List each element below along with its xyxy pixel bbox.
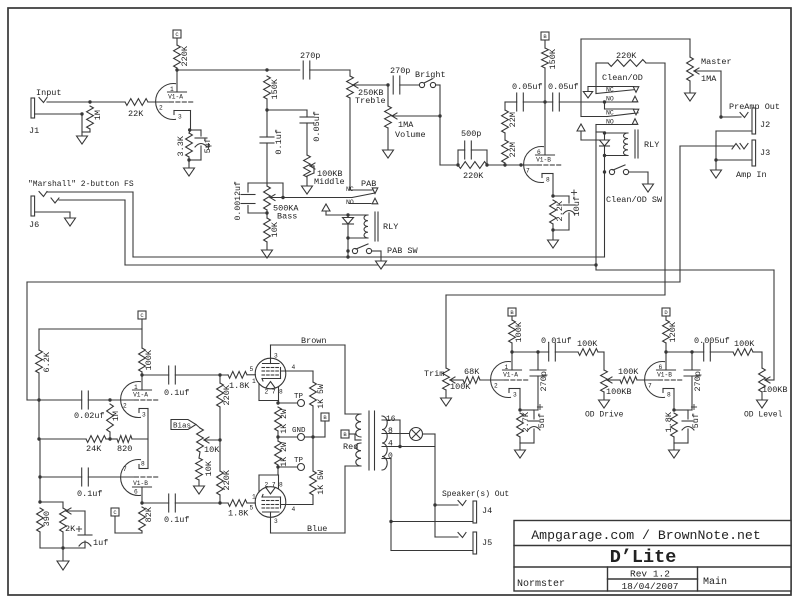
- svg-text:J4: J4: [482, 506, 492, 516]
- svg-text:"Marshall" 2-button FS: "Marshall" 2-button FS: [28, 180, 134, 189]
- svg-text:5uf: 5uf: [691, 413, 701, 428]
- svg-text:Brown: Brown: [301, 336, 327, 346]
- svg-text:NC: NC: [606, 87, 614, 94]
- svg-text:0.05uf: 0.05uf: [512, 82, 543, 92]
- svg-text:V1-B: V1-B: [536, 157, 551, 164]
- svg-text:0.1uf: 0.1uf: [77, 489, 103, 499]
- svg-text:1: 1: [252, 378, 256, 385]
- svg-text:OD Drive: OD Drive: [585, 411, 624, 420]
- svg-text:100K: 100K: [144, 349, 154, 370]
- svg-text:6: 6: [659, 364, 663, 371]
- svg-text:1K 5W: 1K 5W: [317, 470, 326, 495]
- svg-text:1K 5W: 1K 5W: [317, 384, 326, 409]
- svg-text:1: 1: [252, 494, 256, 501]
- svg-text:500p: 500p: [461, 129, 481, 139]
- svg-text:1.8K: 1.8K: [664, 411, 674, 432]
- svg-text:1K 2W: 1K 2W: [280, 409, 289, 434]
- svg-text:100K: 100K: [450, 382, 471, 392]
- svg-text:1: 1: [505, 364, 509, 371]
- svg-text:J1: J1: [29, 126, 39, 136]
- svg-text:GND: GND: [292, 427, 306, 435]
- svg-text:Rev 1.2: Rev 1.2: [630, 569, 670, 580]
- svg-text:5: 5: [250, 505, 254, 512]
- svg-text:Middle: Middle: [314, 177, 345, 187]
- svg-text:3: 3: [513, 392, 517, 399]
- svg-text:0.0012uf: 0.0012uf: [233, 181, 243, 220]
- svg-text:150K: 150K: [548, 48, 558, 69]
- svg-text:1K 2W: 1K 2W: [280, 442, 289, 467]
- svg-text:0.02uf: 0.02uf: [74, 411, 105, 421]
- svg-text:10K: 10K: [204, 445, 220, 455]
- svg-text:22M: 22M: [508, 112, 518, 127]
- svg-text:Treble: Treble: [355, 96, 386, 106]
- svg-text:Clean/OD: Clean/OD: [602, 73, 643, 83]
- svg-text:0.01uf: 0.01uf: [541, 336, 572, 346]
- svg-text:820: 820: [117, 444, 132, 454]
- svg-text:220K: 220K: [222, 469, 232, 490]
- svg-text:Speaker(s) Out: Speaker(s) Out: [442, 490, 509, 499]
- svg-text:0.05uf: 0.05uf: [312, 111, 322, 142]
- svg-text:2 7: 2 7: [265, 389, 276, 396]
- svg-text:0.1uf: 0.1uf: [274, 129, 284, 155]
- svg-text:Bias: Bias: [173, 423, 191, 431]
- svg-text:PAB SW: PAB SW: [387, 246, 419, 256]
- svg-text:1.8K: 1.8K: [228, 509, 249, 519]
- svg-text:Master: Master: [701, 57, 732, 67]
- svg-text:2.7K: 2.7K: [521, 411, 531, 432]
- svg-text:8: 8: [667, 392, 671, 399]
- svg-text:0.1uf: 0.1uf: [164, 388, 190, 398]
- svg-text:22K: 22K: [128, 109, 144, 119]
- svg-text:2 7: 2 7: [265, 482, 276, 489]
- svg-text:Ampgarage.com / BrownNote.net: Ampgarage.com / BrownNote.net: [531, 528, 761, 543]
- svg-text:TP: TP: [294, 457, 304, 465]
- svg-text:3: 3: [178, 114, 182, 121]
- svg-text:J2: J2: [760, 120, 770, 130]
- svg-text:2.2K: 2.2K: [555, 200, 565, 221]
- svg-text:6.2K: 6.2K: [42, 351, 52, 372]
- svg-text:1: 1: [170, 86, 174, 93]
- svg-text:100K: 100K: [577, 339, 598, 349]
- svg-text:5: 5: [250, 366, 254, 373]
- svg-text:270p: 270p: [390, 66, 410, 76]
- svg-text:220K: 220K: [222, 384, 232, 405]
- svg-text:3.3K: 3.3K: [176, 135, 186, 156]
- svg-text:V1-B: V1-B: [657, 372, 672, 379]
- svg-text:8: 8: [141, 461, 145, 468]
- svg-text:5uf: 5uf: [537, 413, 547, 428]
- svg-text:100KB: 100KB: [606, 387, 632, 397]
- svg-text:120K: 120K: [668, 321, 678, 342]
- svg-text:RLY: RLY: [644, 140, 659, 150]
- svg-text:V1-A: V1-A: [133, 392, 148, 399]
- svg-text:V1-A: V1-A: [503, 372, 518, 379]
- svg-text:220K: 220K: [180, 45, 190, 66]
- svg-text:0.05uf: 0.05uf: [548, 82, 579, 92]
- svg-text:6: 6: [537, 149, 541, 156]
- svg-text:220K: 220K: [463, 171, 484, 181]
- svg-text:V1-B: V1-B: [133, 480, 148, 487]
- svg-text:2: 2: [159, 105, 163, 112]
- svg-text:6: 6: [134, 489, 138, 496]
- svg-text:Clean/OD SW: Clean/OD SW: [606, 195, 663, 205]
- svg-text:100K: 100K: [618, 367, 639, 377]
- svg-text:100KB: 100KB: [762, 385, 788, 395]
- svg-text:82K: 82K: [144, 506, 154, 522]
- svg-text:4: 4: [292, 506, 296, 513]
- svg-text:7: 7: [648, 383, 652, 390]
- svg-text:J3: J3: [760, 148, 770, 158]
- svg-text:NO: NO: [606, 119, 614, 126]
- svg-text:22M: 22M: [508, 142, 518, 157]
- svg-text:Volume: Volume: [395, 130, 426, 140]
- svg-text:10K: 10K: [270, 221, 280, 237]
- svg-text:1: 1: [134, 384, 138, 391]
- svg-text:2K: 2K: [65, 524, 76, 534]
- svg-text:18/04/2007: 18/04/2007: [621, 581, 678, 592]
- svg-text:270p: 270p: [300, 51, 320, 61]
- svg-text:270p: 270p: [539, 371, 549, 391]
- svg-text:1uf: 1uf: [93, 538, 108, 548]
- svg-text:1MA: 1MA: [701, 74, 717, 84]
- svg-text:Input: Input: [36, 88, 62, 98]
- svg-text:1M: 1M: [111, 411, 121, 421]
- svg-text:TP: TP: [294, 393, 304, 401]
- svg-text:7: 7: [526, 168, 530, 175]
- svg-text:3: 3: [274, 353, 278, 360]
- svg-text:Blue: Blue: [307, 524, 327, 534]
- svg-text:Bright: Bright: [415, 70, 446, 80]
- svg-text:68K: 68K: [464, 367, 480, 377]
- svg-text:4: 4: [292, 364, 296, 371]
- svg-text:10uf: 10uf: [572, 196, 582, 216]
- svg-text:2: 2: [123, 403, 127, 410]
- svg-text:D’Lite: D’Lite: [610, 547, 677, 568]
- svg-text:4: 4: [388, 440, 393, 449]
- svg-text:J5: J5: [482, 538, 492, 548]
- svg-text:7: 7: [123, 466, 127, 473]
- svg-text:10K: 10K: [204, 460, 214, 476]
- svg-text:NO: NO: [346, 199, 354, 206]
- svg-text:8: 8: [279, 482, 283, 489]
- svg-text:NO: NO: [606, 96, 614, 103]
- svg-text:8: 8: [546, 177, 550, 184]
- svg-text:J6: J6: [29, 220, 39, 230]
- svg-text:0.1uf: 0.1uf: [164, 515, 190, 525]
- svg-text:Trim: Trim: [424, 369, 444, 379]
- svg-text:8: 8: [279, 389, 283, 396]
- svg-text:0.005uf: 0.005uf: [694, 336, 730, 346]
- svg-text:24K: 24K: [86, 444, 102, 454]
- svg-text:2: 2: [494, 383, 498, 390]
- svg-text:3: 3: [142, 412, 146, 419]
- svg-text:220K: 220K: [616, 51, 637, 61]
- svg-text:Bass: Bass: [277, 212, 297, 222]
- svg-text:8: 8: [388, 427, 393, 436]
- svg-text:100K: 100K: [514, 321, 524, 342]
- svg-text:V1-A: V1-A: [168, 94, 183, 101]
- svg-text:1M: 1M: [93, 110, 103, 120]
- svg-text:270p: 270p: [693, 371, 703, 391]
- svg-text:3: 3: [274, 518, 278, 525]
- svg-text:OD Level: OD Level: [744, 411, 783, 420]
- svg-text:390: 390: [42, 511, 52, 526]
- svg-text:Normster: Normster: [517, 579, 565, 590]
- svg-text:Amp In: Amp In: [736, 170, 767, 180]
- svg-text:100K: 100K: [734, 339, 755, 349]
- svg-text:150K: 150K: [270, 78, 280, 99]
- svg-text:1MA: 1MA: [398, 120, 414, 130]
- svg-text:Main: Main: [703, 576, 727, 588]
- svg-text:RLY: RLY: [383, 222, 398, 232]
